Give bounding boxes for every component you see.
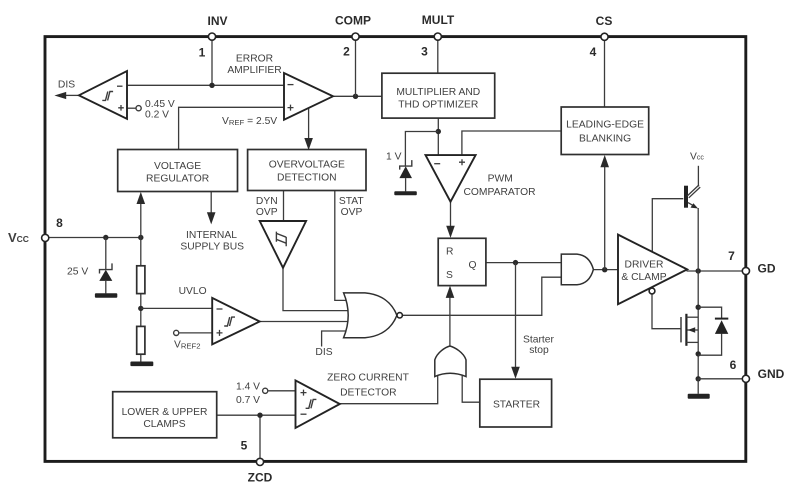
hysteresis symbol UVLO bbox=[224, 317, 235, 326]
svg-text:REGULATOR: REGULATOR bbox=[146, 174, 209, 185]
minus sign UVLO bbox=[217, 308, 223, 310]
svg-text:CLAMPS: CLAMPS bbox=[143, 419, 185, 430]
svg-text:VOLTAGE: VOLTAGE bbox=[154, 161, 201, 172]
pin 7 GD circle bbox=[742, 267, 749, 274]
plus sign PWM comparator bbox=[459, 159, 465, 165]
zener diode 1V triangle bbox=[399, 166, 412, 178]
svg-text:GND: GND bbox=[758, 367, 785, 381]
transistor Q1 collector double line bbox=[687, 185, 700, 198]
svg-text:AMPLIFIER: AMPLIFIER bbox=[227, 65, 281, 76]
transistor Q1 emitter bbox=[688, 203, 695, 207]
svg-text:1 V: 1 V bbox=[386, 151, 402, 162]
wire BJT emitter down to GD net bbox=[697, 208, 699, 271]
zener diode 25V bar bbox=[100, 263, 113, 273]
wire error amp to overvoltage detection bbox=[308, 104, 310, 140]
svg-text:COMPARATOR: COMPARATOR bbox=[463, 187, 535, 198]
wire Vcc down to 25V zener bbox=[105, 238, 107, 270]
pin 4 CS circle bbox=[601, 33, 608, 40]
svg-text:25 V: 25 V bbox=[67, 267, 88, 278]
svg-text:DETECTION: DETECTION bbox=[277, 172, 337, 183]
svg-text:& CLAMP: & CLAMP bbox=[621, 272, 666, 283]
arrow into voltage regulator bbox=[137, 192, 146, 204]
wire multiplier output to PWM comparator - input bbox=[437, 118, 439, 155]
wire internal supply bus bbox=[210, 192, 212, 217]
node junction INV net bbox=[209, 83, 214, 88]
plus sign DIS comparator bbox=[118, 105, 124, 111]
driver clamp bubble bbox=[649, 288, 655, 294]
svg-text:LEADING-EDGE: LEADING-EDGE bbox=[566, 120, 644, 131]
wire ZCD comparator output to OR gate bbox=[339, 373, 438, 404]
diode D1 body diode cathode bar bbox=[715, 318, 728, 320]
lower and upper clamps block bbox=[113, 392, 217, 438]
ground below 1V zener bbox=[394, 191, 417, 195]
svg-text:OVP: OVP bbox=[341, 207, 363, 218]
AND gate bbox=[561, 254, 593, 285]
node junction Vcc-divider bbox=[138, 235, 143, 240]
wire UVLO output to NOR gate bbox=[259, 321, 351, 323]
svg-text:INTERNAL: INTERNAL bbox=[186, 230, 237, 241]
wire Vcc up into voltage regulator bbox=[140, 201, 142, 238]
flip-flop U3 R/S latch bbox=[438, 238, 486, 285]
wire 1V zener to ground bbox=[405, 178, 407, 191]
wire GND junction to ground bbox=[697, 379, 699, 394]
svg-text:MULT: MULT bbox=[422, 13, 455, 27]
pin 2 COMP circle bbox=[352, 33, 359, 40]
wire error amp output to multiplier bbox=[333, 95, 382, 97]
wire divider bottom to ground bbox=[140, 354, 142, 362]
svg-text:BLANKING: BLANKING bbox=[579, 134, 631, 145]
wire MULT pin 3 down to multiplier box bbox=[437, 40, 439, 73]
wire GND junction to GND pin 6 bbox=[698, 378, 742, 380]
zener diode 1V bar bbox=[400, 160, 412, 170]
voltage regulator block bbox=[118, 150, 238, 192]
svg-text:THD OPTIMIZER: THD OPTIMIZER bbox=[398, 100, 478, 111]
svg-text:GD: GD bbox=[758, 262, 776, 276]
wire flip-flop Q output to AND gate bbox=[486, 262, 562, 264]
pin 5 ZCD circle bbox=[256, 458, 263, 465]
DIS comparator (left-pointing) bbox=[79, 71, 127, 119]
wire clamps output to ZCD comparator - input bbox=[217, 414, 296, 416]
wire PWM comparator output to flip-flop R bbox=[450, 202, 452, 227]
wire COMP pin 2 down to error amp output bbox=[355, 40, 357, 96]
svg-text:MULTIPLIER AND: MULTIPLIER AND bbox=[396, 87, 480, 98]
transistor M1 MOSFET body arrow bbox=[688, 327, 696, 333]
minus sign DIS comparator bbox=[117, 85, 123, 87]
svg-text:1: 1 bbox=[199, 46, 206, 60]
wire GD rail down through MOSFET bbox=[697, 271, 699, 379]
arrow into starter (starter stop) bbox=[511, 367, 520, 379]
svg-text:DRIVER: DRIVER bbox=[625, 260, 664, 271]
transistor M1 MOSFET channel bar bbox=[685, 314, 687, 346]
svg-text:3: 3 bbox=[421, 45, 428, 59]
wire divider top resistor lead bbox=[140, 238, 142, 266]
svg-text:PWM: PWM bbox=[488, 173, 513, 184]
terminal 0.45V/0.2V reference bbox=[136, 106, 141, 111]
node junction multiplier output bbox=[436, 129, 441, 134]
wire divider middle bbox=[140, 294, 142, 327]
svg-text:4: 4 bbox=[590, 45, 597, 59]
ground below divider bbox=[130, 362, 153, 367]
svg-text:INV: INV bbox=[207, 14, 227, 28]
pin 3 MULT circle bbox=[434, 33, 441, 40]
svg-text:S: S bbox=[446, 270, 453, 281]
wire error amp + input to voltage regulator bbox=[179, 107, 284, 149]
wire CS pin 4 down to leading-edge blanking bbox=[604, 40, 606, 107]
svg-text:VCC: VCC bbox=[8, 230, 29, 245]
NOR gate output bubble bbox=[397, 313, 402, 318]
overvoltage detection block bbox=[248, 150, 366, 191]
node junction body diode bottom bbox=[696, 351, 701, 356]
PWM comparator (down-pointing) bbox=[426, 155, 476, 202]
wire OR gate output up to flip-flop S bbox=[449, 297, 451, 347]
wire branch to 1V zener reference bbox=[405, 132, 438, 167]
svg-text:DYN: DYN bbox=[256, 196, 278, 207]
wire driver output to GD pin 7 bbox=[687, 270, 743, 272]
node junction GND net bbox=[696, 376, 701, 381]
svg-text:0.7 V: 0.7 V bbox=[236, 395, 260, 406]
svg-text:6: 6 bbox=[730, 358, 737, 372]
svg-text:7: 7 bbox=[728, 249, 735, 263]
arrow into flip-flop R input bbox=[446, 226, 455, 238]
dynamic OVP symbol bbox=[276, 232, 286, 247]
wire inverting-input net (DIS comparator - to error amplifier -) bbox=[128, 84, 284, 86]
wire DIS comparator output bbox=[65, 94, 79, 96]
OR gate (up-pointing, restart) bbox=[435, 346, 466, 377]
pin 8 VCC circle bbox=[42, 234, 49, 241]
terminal 1.4V/0.7V reference bbox=[263, 388, 268, 393]
hysteresis symbol ZCD bbox=[306, 399, 317, 408]
svg-text:STAT: STAT bbox=[339, 196, 364, 207]
zener diode 25V triangle bbox=[99, 270, 112, 281]
svg-text:VREF2: VREF2 bbox=[174, 340, 201, 351]
transistor Q1 NPN base bar bbox=[684, 186, 688, 208]
minus sign ZCD bbox=[301, 413, 307, 415]
hysteresis symbol DIS comparator bbox=[102, 92, 113, 101]
ground below 25V zener bbox=[95, 293, 117, 298]
minus sign error amplifier bbox=[288, 84, 294, 86]
leading-edge blanking block bbox=[561, 107, 649, 155]
arrow DIS output bbox=[54, 92, 66, 99]
wire 1.4V/0.7V terminal to ZCD comparator + input bbox=[268, 390, 295, 392]
wire DIS comparator + input stub bbox=[127, 107, 136, 109]
svg-text:2: 2 bbox=[343, 45, 350, 59]
transistor Q1 emitter arrow bbox=[691, 203, 699, 208]
svg-text:ZERO CURRENT: ZERO CURRENT bbox=[327, 372, 410, 383]
svg-text:COMP: COMP bbox=[335, 14, 371, 28]
node junction AND output bbox=[602, 267, 607, 272]
svg-text:STARTER: STARTER bbox=[493, 399, 540, 410]
diode D1 body diode triangle bbox=[715, 320, 728, 334]
arrow into flip-flop S input bbox=[446, 286, 455, 298]
wire VCC pin 8 rail bbox=[49, 237, 141, 239]
IC boundary bbox=[45, 37, 746, 462]
transistor M1 MOSFET source stub bbox=[686, 341, 698, 343]
wire starter output to OR gate bbox=[462, 373, 480, 402]
svg-text:UVLO: UVLO bbox=[179, 286, 207, 297]
UVLO comparator bbox=[212, 298, 260, 345]
wire starter stop line bbox=[515, 263, 517, 368]
svg-text:OVERVOLTAGE: OVERVOLTAGE bbox=[269, 160, 345, 171]
ground below MOSFET source bbox=[688, 394, 710, 399]
wire overvoltage detection to DYN OVP comparator bbox=[283, 191, 285, 222]
svg-text:VREF = 2.5V: VREF = 2.5V bbox=[222, 116, 277, 127]
svg-text:5: 5 bbox=[241, 439, 248, 453]
svg-text:R: R bbox=[446, 247, 453, 258]
zero current detector comparator bbox=[296, 380, 340, 428]
plus sign UVLO bbox=[217, 330, 223, 336]
svg-text:DIS: DIS bbox=[315, 347, 332, 358]
wire driver clamp bubble to MOSFET gate bbox=[652, 294, 681, 329]
resistor R1 divider top bbox=[137, 266, 145, 294]
wire STAT OVP to NOR gate bbox=[335, 191, 352, 301]
wire DIS input to NOR gate bbox=[322, 331, 351, 347]
node junction Vcc-zener bbox=[103, 235, 108, 240]
svg-text:ERROR: ERROR bbox=[236, 53, 273, 64]
svg-text:LOWER & UPPER: LOWER & UPPER bbox=[122, 407, 208, 418]
node junction COMP net bbox=[353, 94, 358, 99]
wire body diode branch bottom bbox=[698, 334, 721, 356]
arrow into overvoltage detection bbox=[304, 138, 313, 150]
minus sign PWM comparator bbox=[434, 163, 440, 165]
wire DYN OVP output to NOR gate bbox=[283, 267, 351, 311]
wire INV pin 1 to error amp inverting input bbox=[211, 40, 213, 85]
svg-text:stop: stop bbox=[529, 345, 549, 356]
node junction ZCD net bbox=[257, 413, 262, 418]
pin 6 GND circle bbox=[742, 375, 749, 382]
node junction divider tap bbox=[138, 306, 143, 311]
svg-text:0.45 V: 0.45 V bbox=[145, 99, 175, 110]
svg-text:Starter: Starter bbox=[523, 335, 554, 346]
svg-text:Q: Q bbox=[469, 260, 477, 271]
svg-text:0.2 V: 0.2 V bbox=[145, 109, 169, 120]
svg-text:DIS: DIS bbox=[58, 79, 75, 90]
arrow into leading-edge blanking bbox=[600, 155, 609, 167]
wire body diode branch top bbox=[698, 307, 721, 318]
transistor M1 MOSFET body stub bbox=[688, 329, 699, 331]
plus sign ZCD bbox=[301, 390, 307, 396]
NOR gate (4-input, OR shape with bubble) bbox=[344, 293, 397, 338]
svg-text:8: 8 bbox=[56, 216, 63, 230]
multiplier and THD optimizer block bbox=[382, 73, 495, 118]
wire divider tap to UVLO - input bbox=[141, 307, 212, 309]
svg-text:1.4 V: 1.4 V bbox=[236, 382, 260, 393]
wire driver top edge up to BJT base bbox=[652, 199, 683, 253]
wire VREF2 terminal to UVLO + input bbox=[179, 332, 212, 334]
svg-text:DETECTOR: DETECTOR bbox=[340, 387, 396, 398]
wire 25V zener to ground bbox=[105, 281, 107, 294]
node junction body diode top bbox=[696, 305, 701, 310]
terminal VREF2 bbox=[174, 330, 179, 335]
resistor R2 divider bottom bbox=[137, 326, 145, 354]
svg-text:SUPPLY BUS: SUPPLY BUS bbox=[180, 241, 244, 252]
transistor M1 MOSFET gate bar bbox=[680, 317, 682, 342]
transistor M1 MOSFET drain stub bbox=[686, 316, 698, 318]
driver and clamp buffer bbox=[618, 235, 687, 305]
wire leading-edge blanking to PWM comparator + input bbox=[462, 131, 561, 155]
node junction GD net bbox=[696, 268, 701, 273]
wire NOR gate output to AND gate lower input bbox=[402, 277, 561, 315]
plus sign error amplifier bbox=[288, 105, 294, 111]
wire AND gate output to driver bbox=[593, 269, 619, 271]
svg-text:Vcc: Vcc bbox=[690, 151, 704, 162]
wire ZCD pin 5 up to clamps net bbox=[259, 415, 261, 458]
arrow internal supply bus bbox=[207, 212, 216, 224]
DYN OVP comparator (down-pointing) bbox=[260, 221, 306, 268]
wire AND output up to leading-edge blanking bbox=[604, 163, 606, 270]
error amplifier bbox=[284, 73, 333, 120]
starter block bbox=[480, 379, 552, 427]
svg-text:CS: CS bbox=[596, 14, 613, 28]
wire BJT collector to Vcc bbox=[697, 166, 699, 187]
svg-text:OVP: OVP bbox=[256, 207, 278, 218]
svg-text:ZCD: ZCD bbox=[248, 471, 273, 485]
pin 1 INV circle bbox=[208, 33, 215, 40]
node junction Q output bbox=[513, 260, 518, 265]
